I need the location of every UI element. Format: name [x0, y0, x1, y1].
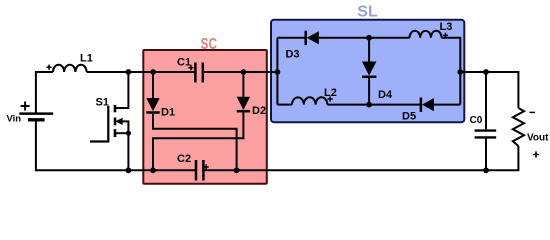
junction node: D4 bottom — [366, 102, 372, 108]
polarity + L1 — [46, 66, 51, 68]
svg-text:C2: C2 — [177, 153, 191, 165]
svg-text:D2: D2 — [252, 105, 266, 117]
SL block shaded region — [271, 20, 464, 122]
wire: D4 node to L3 — [369, 37, 409, 39]
wire: SL left inner vertical — [276, 38, 278, 105]
wire: L2 to D4 bottom node — [327, 104, 420, 106]
diode D4 cathode lead — [368, 78, 370, 105]
diode D4 triangle — [362, 62, 376, 76]
inductor L2 — [292, 97, 327, 104]
svg-text:SC: SC — [201, 36, 218, 53]
svg-text:SL: SL — [357, 4, 378, 21]
capacitor C0 plates — [475, 129, 497, 131]
polarity + L2 — [328, 98, 333, 100]
junction node: D1 return on bottom rail — [234, 167, 240, 173]
wire: top rail from battery to L1 — [36, 72, 53, 113]
wire: SL bottom branch left segment — [277, 104, 292, 106]
svg-text:D5: D5 — [402, 111, 416, 123]
transistor S1 channel segments — [114, 105, 117, 112]
svg-text:D1: D1 — [161, 107, 175, 119]
SC block shaded region — [143, 50, 266, 184]
svg-text:S1: S1 — [96, 97, 109, 109]
junction node: SL input — [275, 69, 281, 75]
svg-text:L2: L2 — [324, 87, 337, 99]
wire: D3 to D4 node — [319, 37, 369, 39]
resistor Rload zigzag — [513, 108, 524, 146]
diode D4 anode lead — [368, 38, 370, 62]
transistor S1 source lead — [115, 132, 128, 134]
polarity + battery Vin — [21, 105, 30, 107]
svg-text:D4: D4 — [378, 89, 393, 101]
diode D3 triangle — [307, 31, 319, 44]
svg-text:C1: C1 — [177, 57, 191, 69]
wire: C2 right plate along bottom rail to load — [203, 146, 518, 170]
junction node: D2 anode — [241, 69, 247, 75]
polarity + L3 — [443, 34, 448, 36]
diode D2 triangle — [237, 97, 250, 110]
inductor L3 — [410, 31, 442, 38]
diode D1 triangle — [146, 98, 159, 111]
polarity + C2 — [204, 166, 209, 168]
wire: D2 cathode staircase to bottom rail left of C2 — [153, 112, 243, 170]
wire: SL top branch left segment — [277, 37, 304, 39]
inductor L1 — [53, 65, 87, 72]
capacitor C0 top lead — [485, 72, 487, 129]
wire: bottom rail to C2 left plate — [128, 169, 196, 171]
battery Vin plates — [19, 112, 53, 115]
diode D1 cathode bar — [146, 111, 159, 114]
svg-text:Vin: Vin — [7, 114, 22, 125]
wire: D1 cathode staircase to bottom rail right of C2 — [153, 114, 237, 171]
diode D4 cathode bar — [362, 76, 376, 79]
svg-text:Vout: Vout — [527, 133, 549, 144]
junction node: D4 top — [366, 35, 372, 41]
diode D5 cathode bar — [420, 98, 423, 112]
wire: L3 to SL right vertical — [442, 38, 461, 105]
diode D2 cathode bar — [237, 110, 250, 113]
junction node: S1 source/body tie — [126, 131, 131, 136]
svg-text:C0: C0 — [470, 115, 483, 126]
junction node: D1 anode — [150, 69, 156, 75]
capacitor C0 bottom lead — [485, 139, 487, 171]
transistor S1 drain lead — [115, 72, 128, 108]
junction node: L1/S1/SC top — [125, 69, 131, 75]
polarity - Vout — [530, 111, 536, 113]
transistor S1 gate bar and gate lead — [90, 106, 108, 142]
wire: L1 to C1 left plate — [87, 71, 196, 73]
svg-text:D3: D3 — [286, 49, 300, 61]
polarity + Vout — [533, 154, 539, 156]
wire: D5 anode to SL right vertical — [434, 104, 460, 106]
wire: C1 right plate to SL input — [203, 71, 278, 73]
junction node: C0 top — [483, 69, 489, 75]
diode D5 triangle — [422, 98, 434, 111]
junction node: SL output — [457, 69, 463, 75]
polarity + C1 — [188, 67, 193, 69]
junction node: C0 bottom — [483, 167, 489, 173]
wire: SL output to C0 and load corner — [460, 72, 518, 108]
svg-text:L1: L1 — [80, 53, 93, 65]
capacitor C2 plates — [195, 160, 198, 181]
svg-text:L3: L3 — [440, 21, 453, 33]
diode D2 anode lead — [242, 72, 244, 97]
junction node: D2 return on bottom rail — [150, 167, 156, 173]
diode D3 cathode bar — [304, 31, 307, 45]
junction node: S1 source on bottom rail — [125, 167, 131, 173]
capacitor C1 plates — [194, 63, 197, 83]
wire: battery negative down to bottom rail — [36, 121, 128, 170]
transistor S1 body arrow head — [115, 118, 122, 125]
diode D1 anode lead — [152, 72, 154, 98]
transistor S1 body lead to source — [121, 121, 128, 170]
